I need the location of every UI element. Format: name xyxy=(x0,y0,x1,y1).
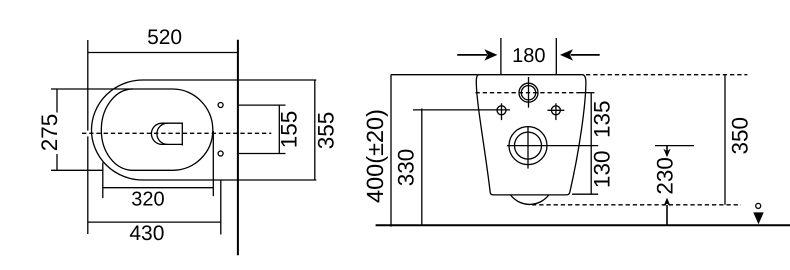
320 right extension line xyxy=(212,131,214,196)
outer tangent extension to 355 (bottom) xyxy=(238,179,316,181)
flush spud right edge xyxy=(181,123,183,146)
outer bowl outline (top view) xyxy=(92,80,238,180)
180 left extension line xyxy=(500,38,502,75)
right fixing hole horizontal tick xyxy=(548,109,565,111)
svg-text:355: 355 xyxy=(314,112,339,150)
left fixing hole (front view) xyxy=(497,106,506,115)
right fixing hole (front view) xyxy=(551,106,560,115)
svg-text:520: 520 xyxy=(147,26,182,49)
155 top extension line xyxy=(239,104,286,106)
dimension line 275 xyxy=(56,89,58,113)
svg-text:400(±20): 400(±20) xyxy=(362,109,388,203)
230 bottom up-arrow xyxy=(663,198,670,225)
svg-text:275: 275 xyxy=(37,114,62,152)
dimension line 520 xyxy=(88,52,238,54)
svg-text:155: 155 xyxy=(277,111,302,149)
datum circle (floor level mark) xyxy=(756,203,761,208)
fixing hole top (left view) xyxy=(218,103,223,108)
flush spud inner arc xyxy=(157,123,168,144)
275 top extension line xyxy=(51,88,133,90)
330 extension line through left hole xyxy=(413,109,510,111)
svg-text:180: 180 xyxy=(512,45,545,67)
430 right extension line xyxy=(220,180,222,235)
dashed inlet centerline (front view) xyxy=(476,92,581,94)
svg-text:350: 350 xyxy=(728,117,753,155)
dimension line 330 xyxy=(421,109,423,226)
water inlet inner circle xyxy=(521,86,535,100)
water inlet outer circle xyxy=(519,83,538,102)
svg-text:130: 130 xyxy=(589,151,614,189)
trap outlet bulge arc below body xyxy=(511,195,549,205)
top level dashed line (to 350 dim) xyxy=(586,74,747,76)
dashed centerline (left view) xyxy=(82,132,271,134)
wall line (left view) xyxy=(237,40,239,255)
top level extension line (solid part, to 400 dim) xyxy=(391,74,478,76)
135 top extension (solid part of inlet centerline) xyxy=(580,92,594,94)
275 bottom extension line xyxy=(51,169,103,171)
230 top down-arrow xyxy=(663,146,670,158)
flush spud outer arc xyxy=(151,123,162,144)
dimension line 430 xyxy=(88,221,221,223)
dimension line 350 xyxy=(724,75,726,205)
320 left extension line xyxy=(102,163,104,199)
230 top reference bar (outlet centerline level) xyxy=(655,145,694,147)
datum filled triangle (floor level mark) xyxy=(753,212,763,224)
floor line xyxy=(376,224,790,226)
svg-text:430: 430 xyxy=(129,222,164,245)
inner bowl rim (top view) xyxy=(101,89,213,170)
svg-text:330: 330 xyxy=(394,149,419,187)
svg-text:320: 320 xyxy=(131,188,164,210)
180 right arrow xyxy=(560,49,600,60)
flush spud top edge xyxy=(162,122,182,124)
inlet vertical centerline xyxy=(528,77,530,108)
outlet outer circle xyxy=(509,127,547,165)
svg-text:135: 135 xyxy=(589,100,614,138)
toilet body outline (front view) xyxy=(476,75,586,195)
dimension line 400 xyxy=(390,75,392,227)
180 left arrow xyxy=(457,49,497,60)
dimension line 355 xyxy=(314,80,316,180)
130 bottom extension line xyxy=(572,193,598,195)
dashed outlet-bottom level line xyxy=(532,204,741,206)
180 right extension line xyxy=(555,38,557,75)
front extension line (left, serves 520 top and 430 bottom) xyxy=(87,40,89,131)
svg-text:230: 230 xyxy=(653,157,678,195)
dimension line 320 xyxy=(103,187,214,189)
left fixing hole vertical tick xyxy=(501,103,503,120)
right fixing hole vertical tick xyxy=(555,103,557,120)
outlet horizontal centerline extended to 130/135 dims xyxy=(507,145,598,147)
dimension line 155 xyxy=(278,105,280,153)
fixing hole bottom (left view) xyxy=(218,151,223,156)
flush spud bottom edge xyxy=(162,143,182,145)
outlet inner circle xyxy=(515,132,542,159)
dimension line 135/130 xyxy=(590,93,592,194)
155 bottom extension line xyxy=(239,153,286,155)
outer tangent extension to 355 (top) xyxy=(238,79,316,81)
outlet vertical centerline xyxy=(527,126,529,168)
